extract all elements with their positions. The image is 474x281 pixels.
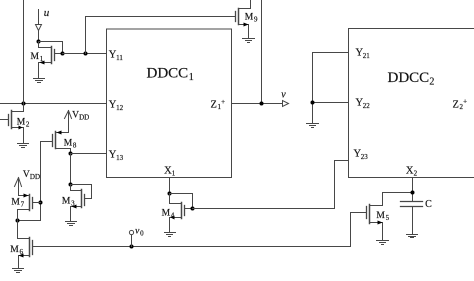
svg-text:2: 2: [429, 77, 434, 88]
svg-text:6: 6: [20, 248, 24, 256]
ground under M6: [13, 269, 24, 273]
svg-text:11: 11: [116, 54, 123, 62]
node M7 drain junction: [16, 219, 20, 223]
node v0 terminal: [129, 227, 144, 247]
wire Y21: [313, 52, 349, 54]
ground under Y22 rail: [307, 124, 319, 128]
svg-text:C: C: [425, 199, 432, 210]
wire u-node to M1 gate column: [39, 42, 63, 54]
ground under M2: [18, 144, 29, 148]
svg-text:M: M: [31, 52, 40, 62]
node X2 junction: [411, 191, 415, 195]
svg-text:M: M: [162, 209, 171, 219]
node M7 gate junction: [39, 201, 43, 205]
wire v0 riser to M5 gate: [351, 213, 367, 247]
power VDD for M8: [65, 110, 90, 132]
svg-text:v: v: [281, 89, 286, 100]
node Y11/M1-gate junction: [61, 52, 65, 56]
ground under M9: [243, 39, 255, 43]
svg-text:u: u: [44, 7, 50, 19]
transistor M4 diode-connected: [162, 194, 193, 233]
svg-text:8: 8: [73, 142, 77, 150]
svg-text:5: 5: [386, 214, 390, 222]
capacitor C: [401, 199, 433, 235]
svg-text:+: +: [463, 98, 467, 106]
svg-text:Z: Z: [453, 99, 459, 110]
wire Y12: [0, 103, 107, 105]
ground under C: [407, 235, 418, 238]
svg-text:Z: Z: [211, 100, 217, 111]
svg-text:21: 21: [363, 52, 371, 60]
wire M9 drain to v rail: [261, 0, 263, 104]
transistor M6: [10, 238, 32, 269]
svg-text:22: 22: [363, 102, 371, 110]
node Z1/v rail junction: [260, 102, 264, 106]
svg-text:1: 1: [40, 55, 44, 63]
node Y22 junction: [311, 101, 315, 105]
wire X2 pin: [412, 178, 414, 202]
DDCC2 block: [349, 29, 474, 178]
node v0 tap junction: [130, 245, 134, 249]
svg-text:M: M: [11, 197, 20, 207]
ground under M5: [377, 241, 389, 245]
input u label: [44, 7, 50, 19]
svg-text:13: 13: [116, 154, 124, 162]
wire M8 gate rail down-left: [18, 142, 41, 221]
wire X1 pin: [169, 178, 171, 194]
output v arrow: [281, 89, 288, 106]
ground under M3: [66, 222, 77, 226]
svg-text:9: 9: [254, 16, 258, 24]
DDCC1 block: [107, 29, 232, 178]
svg-text:12: 12: [116, 104, 124, 112]
svg-text:V: V: [72, 110, 79, 120]
transistor M5: [367, 193, 413, 241]
svg-text:V: V: [23, 170, 30, 180]
svg-text:1: 1: [172, 170, 176, 178]
transistor M2: [0, 104, 30, 144]
svg-text:+: +: [221, 98, 225, 106]
svg-text:23: 23: [361, 153, 369, 161]
wire Y21-Y22 ground rail: [312, 53, 314, 124]
transistor M3 diode-connected: [62, 185, 92, 222]
node M3 drain junction: [69, 183, 73, 187]
transistor M1: [31, 42, 63, 79]
svg-text:4: 4: [171, 212, 175, 220]
svg-text:2: 2: [26, 121, 30, 129]
wire Y13: [71, 153, 107, 155]
wire v0 long rail M6 gate to M5 riser: [33, 246, 351, 248]
node M4 drain junction: [168, 192, 172, 196]
svg-text:M: M: [62, 196, 71, 206]
svg-text:1: 1: [189, 72, 194, 83]
node M4 gate junction: [191, 207, 195, 211]
input u arrow: [36, 10, 42, 42]
svg-text:M: M: [376, 211, 385, 221]
svg-text:2: 2: [414, 170, 418, 178]
svg-text:M: M: [17, 118, 26, 128]
svg-text:M: M: [64, 139, 73, 149]
svg-text:7: 7: [21, 200, 25, 208]
node Y13 junction: [69, 152, 73, 156]
svg-text:0: 0: [140, 230, 144, 238]
svg-text:3: 3: [71, 199, 75, 207]
node u junction: [37, 40, 41, 44]
wire top rail to M9 gate: [86, 17, 236, 54]
wire M8 drain down to M3: [70, 154, 72, 185]
ground under M1: [34, 79, 45, 83]
transistor M7: [11, 194, 40, 239]
ground under M4: [165, 233, 176, 237]
svg-text:M: M: [10, 245, 19, 255]
svg-text:DD: DD: [30, 173, 40, 181]
power VDD for M7: [15, 170, 41, 196]
svg-text:DDCC: DDCC: [147, 66, 189, 82]
svg-text:M: M: [245, 13, 254, 23]
svg-text:DD: DD: [79, 114, 89, 122]
wire Y11: [63, 53, 107, 55]
transistor M9: [236, 0, 259, 39]
wire left rail top edge to Y12: [23, 0, 25, 104]
svg-text:DDCC: DDCC: [388, 70, 430, 86]
wire Z1 output: [232, 103, 283, 105]
transistor M8: [41, 131, 77, 154]
node Y12/M2 junction: [22, 102, 26, 106]
wire Y22: [313, 102, 349, 104]
wire X1 rail to Y23: [193, 161, 349, 209]
node Y11/top-rail junction: [84, 52, 88, 56]
